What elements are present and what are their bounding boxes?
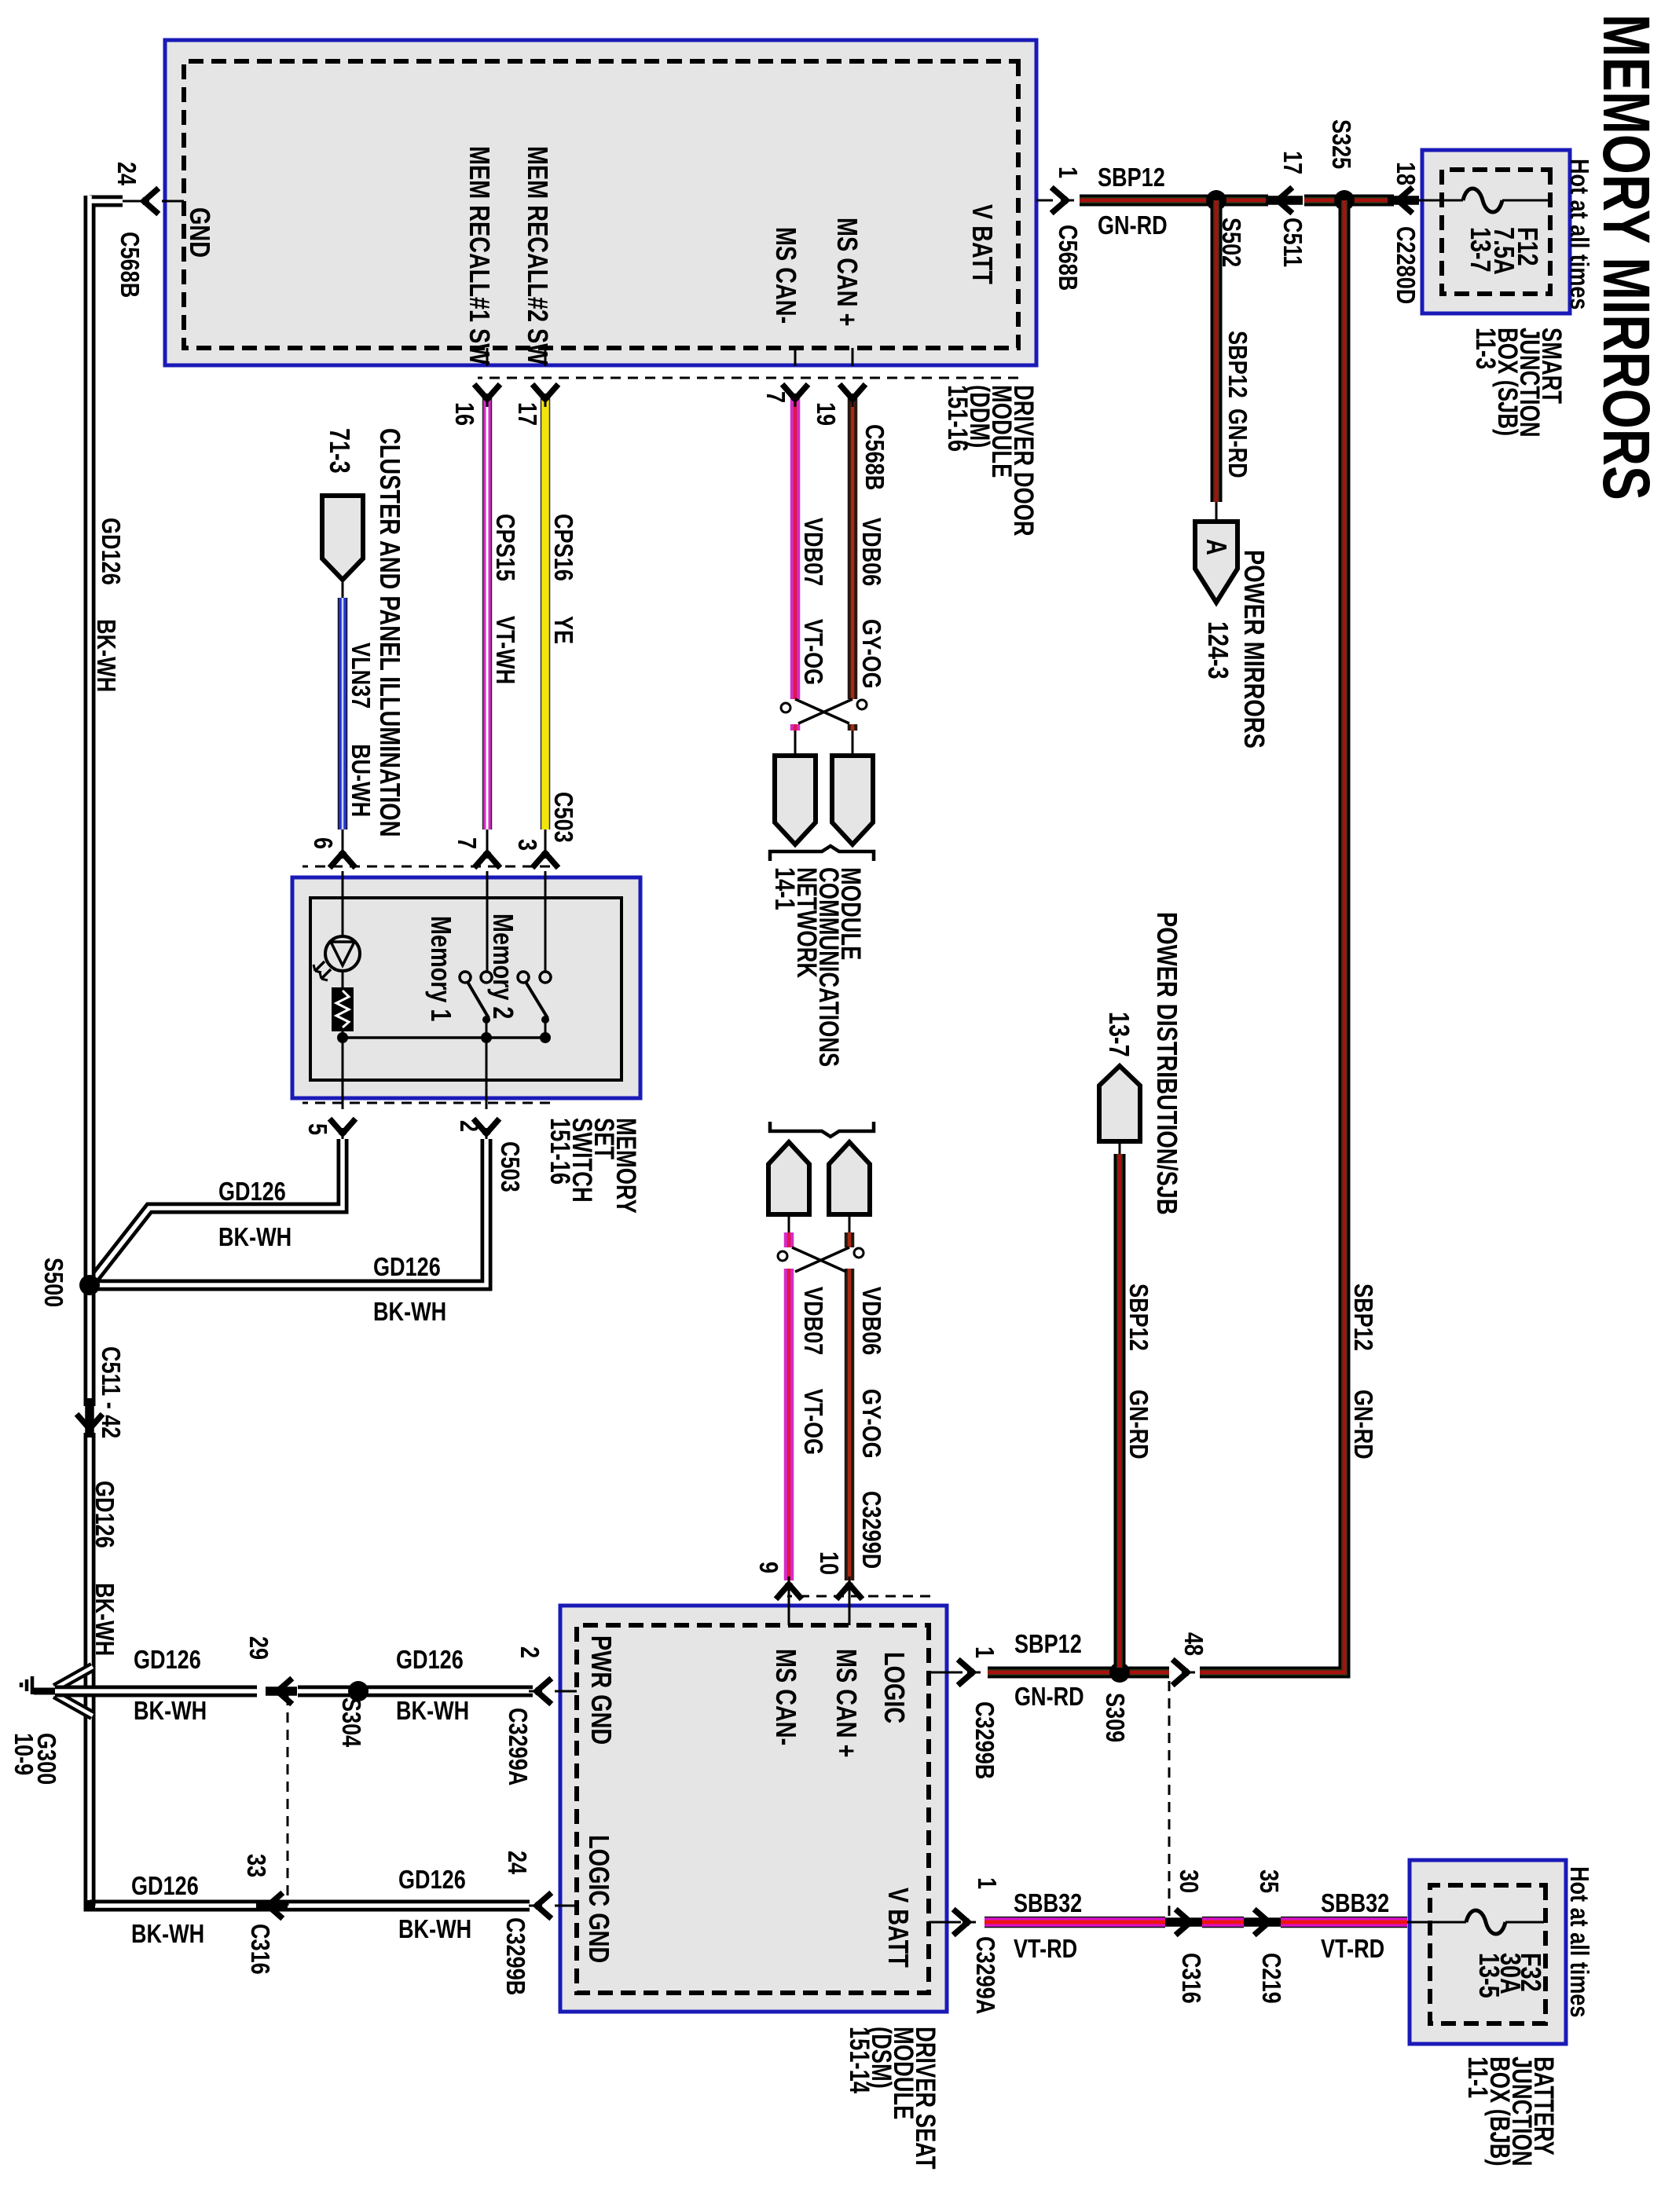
junction S309 [1109,1662,1130,1683]
off-page connector pentagon (MS CAN+ upper) [832,756,873,844]
DSM PWR GND pin 2 arrow [529,1680,549,1702]
label BK-WH [131,1921,204,1946]
label 7.5A [1490,227,1518,275]
DDM caption [946,385,1034,537]
label C2280D [1393,226,1419,304]
label 7 [454,837,480,849]
dashed connector boundary C568B at DDM [478,377,1018,379]
module U1 DDM box (DRIVER DOOR MODULE) [165,40,1036,365]
DSM LOGIC GND pin 24 arrow [529,1895,549,1917]
label SBB32 [1321,1890,1389,1916]
label VDB07 [801,1287,827,1355]
label MS CAN- [772,227,800,324]
label BK-WH [218,1224,291,1250]
wire SBP12 GN-RD long branch S325 to S309 [988,200,1344,1672]
wire SBP12 GN-RD fuse to DDM (vertical) [1080,195,1394,207]
twisted pair symbol lower [778,1247,863,1272]
label 29 [246,1636,272,1660]
SJB area labels [1567,159,1593,309]
wire lamp to resistor [342,971,344,987]
label MEM RECALL#2 SW [523,146,552,364]
SBB32 wire labels [974,1877,1000,1889]
S309 area [1181,1632,1207,1656]
S500 + C511-42 [41,1258,67,1307]
wire pin5 line [342,1038,344,1109]
label 24 [504,1851,530,1874]
off-page connector pentagon (VDB06 lower) [829,1142,870,1214]
connector arrow stubs [1266,196,1419,205]
bus labels [98,518,124,585]
label S502 [1219,218,1245,267]
dashed connector line 48-30 C316 [1168,1681,1171,1922]
label BU-WH [348,744,374,817]
label C3299A [505,1708,531,1785]
label S325 [1329,119,1355,169]
wire GD126 BK-WH from pin2 to S500 [95,1139,486,1285]
wire pin2 line [486,1020,488,1109]
label C3299B [503,1917,529,1995]
label 30A [1496,1953,1524,1994]
label 71-3 [325,428,354,474]
BJB labels [1567,1866,1593,2017]
wire pin3 into switch [544,871,547,972]
label SBP12 [1098,164,1165,190]
connector arrow C511-42 [79,1416,101,1437]
label V BATT [884,1888,912,1968]
label 17 [515,402,541,426]
ground labels [34,1733,60,1785]
DDM GND pin 24 wire [162,200,184,203]
label GD126 [131,1873,199,1899]
GD126 BK-WH pin2 vertical [373,1254,441,1280]
DSM inside labels [880,1652,908,1723]
label Memory 2 [489,914,517,1019]
dashed connector boundary C503 right [302,1102,550,1104]
wire VLN37 BU-WH [342,580,344,848]
dashed connector boundary C503 left [302,866,550,868]
internal bus line [343,1036,545,1039]
label 2 [456,1120,482,1132]
label S304 [339,1697,365,1747]
label BK-WH [398,1916,471,1942]
GD126 BK-WH pin5 vertical [218,1178,286,1204]
label GND [185,207,214,258]
label BK-WH [92,1583,118,1656]
label 13-7 [1105,1012,1133,1057]
label 6 [310,837,336,849]
label C568B [1055,225,1081,291]
title [1593,14,1659,500]
pin 1 arrow C568B (DDM V BATT) [1054,189,1074,211]
label S309 [1102,1693,1128,1742]
DDM pin 19 MS CAN+ wire VDB06 GY-OG [852,348,854,756]
dashed connector boundary C3299D at DSM [787,1595,930,1598]
off-page connector A (POWER MIRRORS) [1195,522,1237,602]
switch Memory 1 [460,972,492,1024]
fuse F12 symbol [1463,189,1502,212]
label C3299D [859,1491,885,1569]
label VT-OG [801,1389,827,1455]
resistor [332,987,354,1031]
module SJB box (SMART JUNCTION BOX) [1422,150,1570,313]
label VLN37 [348,643,374,709]
lamp symbol [313,936,360,980]
DSM caption [848,2027,936,2170]
label MS CAN + [833,218,861,326]
wire SBP12 GN-RD from POWER DISTRIBUTION to S309 [1119,1141,1121,1668]
label GY-OG [859,619,885,689]
brace upper [770,846,874,861]
label 1 [1055,167,1081,178]
connector arrow 18 C2280D [1390,189,1410,211]
twisted pair symbol upper [781,699,867,723]
label 5 [305,1123,331,1135]
module BJB box (BATTERY JUNCTION BOX) [1410,1860,1566,2044]
label GN-RD [1126,1390,1152,1459]
wire pin7 into switch [486,871,489,972]
label 2 [517,1646,543,1658]
brace lower [770,1122,874,1137]
connector arrow 33 [260,1895,280,1917]
label GN-RD [1098,212,1168,238]
long top wire labels [1351,1284,1377,1351]
wire memory2 out to bus [544,1020,547,1038]
label VT-WH [493,616,519,684]
label PWR GND [587,1635,615,1745]
off-page connector pentagon (VDB07 lower) [768,1142,809,1214]
label BK-WH [373,1298,446,1324]
label MS CAN + [832,1649,860,1757]
fuse F32 symbol [1466,1910,1505,1934]
wire resistor to bus junction [342,1031,344,1038]
CAN wire labels [859,518,885,586]
label 13-7 [1466,227,1494,273]
MODULE COMMUNICATIONS NETWORK caption [773,867,861,1067]
label C503 [497,1141,523,1192]
fuse wire labels [1393,162,1419,185]
label F12 [1513,227,1542,266]
label VT-OG [801,619,827,685]
DDM pin numbers [813,402,839,426]
connector arrow 17 C511 [1270,189,1290,211]
label MS CAN- [772,1649,800,1745]
label LOGIC GND [585,1835,613,1963]
label SBP12 [1014,1631,1082,1657]
label C568B [862,424,888,490]
label GD126 [134,1646,201,1672]
pin 1 arrow C3299B (DSM LOGIC) [960,1661,981,1683]
module memory set switch box [292,877,640,1098]
CPS wires labels [551,514,577,581]
label VT-RD [1014,1935,1077,1961]
junction S502 [1206,190,1226,211]
lower CAN wire labels [859,1287,885,1355]
label YE [551,616,577,644]
connector arrow 29 [269,1680,290,1702]
POWER DISTRIBUTION [1153,912,1181,1215]
wire S304 riser GD126 BK-WH [55,1686,533,1697]
label VDB07 [801,518,827,586]
label GY-OG [859,1389,885,1459]
label 24 [114,162,140,185]
S304 riser labels [396,1646,464,1672]
DSM pin 10 MS CAN+ wire VDB06 GY-OG [849,1214,851,1625]
label C511 - 42 [98,1346,124,1438]
label 124-3 [1204,621,1232,679]
junction S325 [1334,190,1355,211]
wire SBP12 GN-RD branch S502 to A (horizontal) [1211,200,1223,522]
DSM pin 9 MS CAN- wire VDB07 VT-OG [788,1214,790,1625]
CLUSTER labels [376,428,404,837]
label SBP12 [1126,1284,1152,1351]
label GN-RD [1225,408,1251,478]
label SMART / JUNCTION / BOX (SJB) / 11-3 [1474,328,1562,438]
label BATTERY / JUNCTION / BOX (BJB) / 11-1 [1466,2056,1554,2166]
label 7 [763,391,789,403]
label 9 [756,1562,782,1573]
label GN-RD [1014,1683,1084,1709]
memory switch labels [515,839,541,851]
label 10-9 [11,1733,37,1775]
label MEM RECALL#1 SW [465,146,493,364]
label BK-WH [134,1697,207,1723]
label C316 [1179,1953,1204,2004]
label BK-WH [396,1697,469,1723]
connector arrow 48 [1175,1661,1195,1683]
dashed connector line 29-33 C316 [287,1695,289,1906]
label BK-WH [93,619,119,692]
label SBB32 [1014,1890,1082,1916]
POWER MIRRORS [1240,550,1268,749]
label F32 [1516,1953,1545,1992]
label C219 [1259,1953,1285,2004]
ground bus GD126 BK-WH [84,196,530,1906]
switch Memory 2 [518,972,551,1024]
ground G300 funnel diagonals [55,1667,93,1716]
label 17 [1280,151,1306,174]
wire SBB32 VT-RD DSM V BATT to BJB [929,1921,1544,1924]
label 33 [244,1854,269,1877]
off-page connector pentagon (CLUSTER ILLUMINATION) [322,496,363,580]
wire pin6 to lamp [342,871,344,936]
label CPS15 [493,514,519,581]
label 10 [816,1551,842,1575]
label GD126 [92,1481,118,1548]
DDM pin 17 wire CPS16 YE [544,348,547,848]
label C316 [247,1924,273,1975]
junction S500 [79,1275,100,1295]
label C511 [1280,218,1306,267]
label 13-5 [1475,1953,1503,1998]
module DSM box (DRIVER SEAT MODULE) [560,1606,947,2012]
off-page connector POWER DISTRIBUTION/SJB [1099,1066,1140,1141]
label Memory 1 [427,916,455,1021]
DDM pin 7 MS CAN- wire VDB07 VT-OG [794,348,797,756]
wire GD126 BK-WH from pin5 to S500 [93,1139,343,1280]
DDM pin 16 wire CPS15 VT-WH [486,348,489,848]
S502 branch labels [1225,331,1251,398]
off-page connector pentagon (MS CAN- upper) [775,756,816,844]
label GN-RD [1351,1390,1377,1459]
ground G300 symbol [21,1676,57,1694]
label VT-RD [1321,1935,1384,1961]
fuse F12 feed line inside SJB [1405,200,1549,202]
LOGIC GND riser labels [398,1866,466,1892]
label C503 [551,792,577,843]
junction S304 [348,1681,368,1701]
label 35 [1256,1870,1282,1893]
label A [1202,539,1230,555]
label 1 [972,1646,998,1658]
label C568B [117,232,143,298]
label 30 [1176,1870,1202,1893]
label 16 [452,402,478,426]
label C3299A [973,1936,999,2014]
label C3299B [972,1701,998,1779]
DDM inside labels [968,204,996,284]
label MEMORY / SET / SWITCH / 151-16 [548,1118,636,1214]
